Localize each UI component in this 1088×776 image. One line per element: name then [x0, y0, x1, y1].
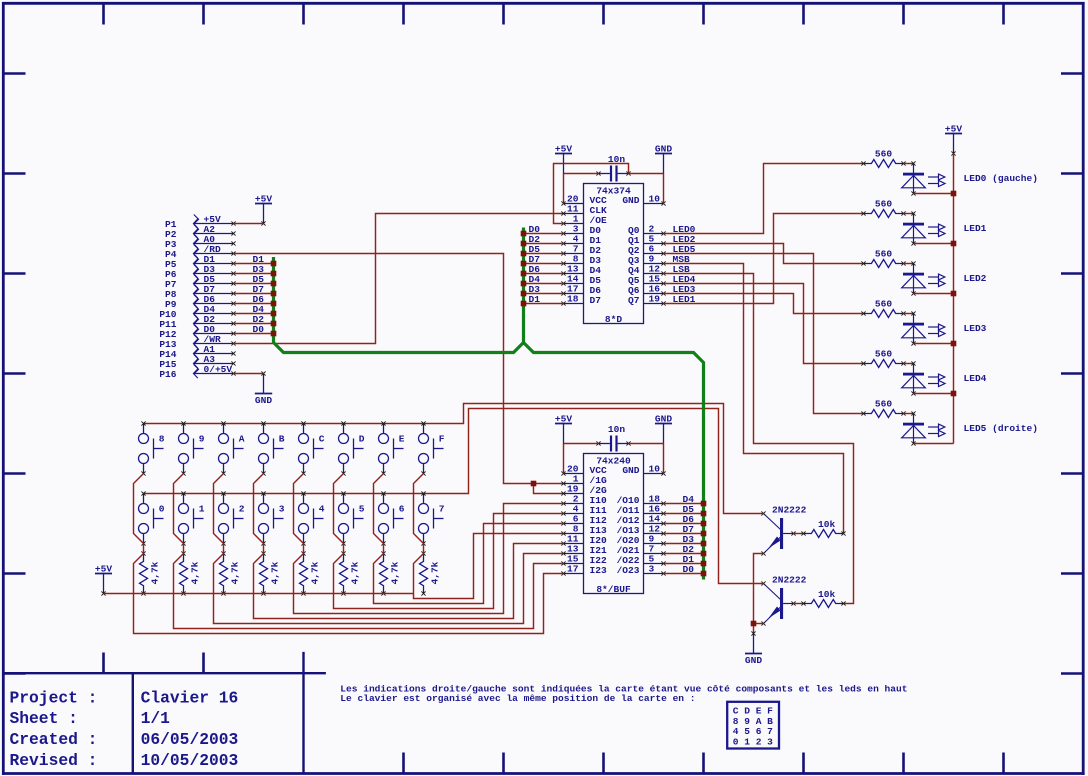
wire Q1 base: [794, 533, 804, 535]
switch S5 key 5: [339, 491, 365, 545]
junction dots bus U1 D0-D7: [521, 231, 527, 307]
wire /RD (P4 to 74x240 /1G,/2G): [234, 254, 564, 484]
svg-text:LED2: LED2: [964, 273, 987, 284]
svg-text:F: F: [439, 434, 445, 445]
U1 pin 4 D1: [561, 234, 601, 247]
svg-text:0/+5V: 0/+5V: [204, 364, 233, 375]
wire /2G branch: [534, 484, 564, 494]
wire D5 (U2 to bus): [664, 504, 704, 515]
wire R4 to LED3: [904, 313, 914, 315]
U1 pin 1 /OE: [561, 214, 607, 227]
GND symbol (connector P16): [255, 371, 273, 406]
wire P1 +5V: [234, 223, 264, 225]
U2 pin 11 I20: [561, 534, 607, 547]
wire D7 (bus to U1): [524, 254, 564, 265]
switch S7 key 7: [419, 491, 445, 545]
svg-text:1/1: 1/1: [141, 709, 171, 728]
wire D0 (U2 to bus): [664, 564, 704, 575]
connector pin P6: [165, 264, 236, 280]
switch S8 key 8: [139, 421, 165, 475]
switch S3 key 3: [259, 491, 285, 545]
note text: [340, 684, 907, 704]
wire P16 GND: [234, 373, 264, 375]
svg-text:+5V: +5V: [95, 564, 112, 575]
resistor R6 560: [861, 399, 905, 418]
connector pin P2: [165, 224, 236, 240]
connector pin P16: [159, 364, 235, 380]
resistor R4,7k column 2: [180, 551, 201, 595]
wire GND to C2 and U2 pin10: [629, 444, 664, 474]
U1 pin 13 D4: [561, 264, 601, 277]
junction dot emitters: [751, 621, 757, 627]
wire D6 (U2 to bus): [664, 514, 704, 525]
wire +5V LED rail: [953, 154, 955, 444]
capacitor C1 10n: [596, 154, 630, 182]
GND symbol (transistors): [745, 631, 762, 666]
svg-text:Clavier 16: Clavier 16: [141, 688, 239, 707]
svg-text:I23: I23: [590, 565, 607, 576]
wire D1 (U2 to bus): [664, 554, 704, 565]
wire +5V to C1 and U1 VCC: [564, 174, 599, 204]
U2 pin 12 /O13: [617, 524, 666, 537]
wire keypad row2 to Q2 collector: [144, 409, 764, 584]
svg-text:2N2222: 2N2222: [772, 505, 807, 516]
svg-text:560: 560: [875, 399, 892, 410]
resistor R8 10k: [801, 589, 845, 608]
wire D7 (U2 to bus): [664, 524, 704, 535]
wire keypad row1 to Q1 collector: [144, 404, 764, 514]
wire D4 (P10 to bus): [234, 304, 274, 315]
resistor R1 560: [861, 149, 905, 168]
title block text: [10, 688, 239, 769]
wire Q1 emitter to Q2 emitter: [754, 554, 764, 624]
svg-text:D0: D0: [683, 564, 695, 575]
wire MSB net (to Q1 10k): [664, 254, 844, 534]
resistor R4,7k column 8: [420, 551, 441, 595]
svg-text:GND: GND: [745, 655, 762, 666]
U1 pin 18 D7: [561, 294, 601, 307]
svg-text:4,7k: 4,7k: [349, 561, 360, 584]
svg-text:LED0 (gauche): LED0 (gauche): [964, 173, 1038, 184]
svg-text:10: 10: [649, 464, 661, 475]
switch S0 key 0: [139, 491, 165, 545]
svg-text:560: 560: [875, 149, 892, 160]
svg-text:17: 17: [567, 564, 579, 575]
wire keypad column 5 to U2 input: [294, 504, 564, 614]
wire Q2 base: [794, 603, 804, 605]
connector pin P14: [159, 344, 235, 360]
wire D2 (P11 to bus): [234, 314, 274, 325]
svg-text:Le clavier est organisé avec l: Le clavier est organisé avec la même pos…: [340, 693, 695, 704]
svg-text:560: 560: [875, 199, 892, 210]
wire keypad column 2 to U2 input: [174, 554, 564, 629]
connector pin P4: [165, 244, 236, 260]
svg-text:0 1 2 3: 0 1 2 3: [733, 737, 773, 748]
svg-text:4,7k: 4,7k: [429, 561, 440, 584]
wire D5 (P7 to bus): [234, 274, 274, 285]
svg-text:GND: GND: [655, 414, 672, 425]
title block: [2, 652, 326, 774]
+5V power symbol (keypad pullups): [95, 564, 112, 596]
U1 pin 17 D6: [561, 284, 601, 297]
U1 pin 14 D5: [561, 274, 601, 287]
wire D3 (U2 to bus): [664, 534, 704, 545]
connector pin P10: [159, 304, 235, 320]
wire D3 (P6 to bus): [234, 264, 274, 275]
svg-text:4: 4: [319, 504, 325, 515]
wire D6 (P9 to bus): [234, 294, 274, 305]
green data bus: [274, 228, 704, 580]
wire D2 (bus to U1): [524, 234, 564, 245]
junction dots LED +5V rail: [951, 191, 957, 397]
wire D0 (P12 to bus): [234, 324, 274, 335]
svg-text:D: D: [359, 434, 365, 445]
svg-text:2: 2: [239, 504, 245, 515]
svg-text:1: 1: [199, 504, 205, 515]
wire LED0 cathode to +5V rail: [914, 193, 954, 195]
U2 pin 19 /2G: [561, 484, 607, 497]
U1 pin 5 Q1: [628, 234, 666, 247]
connector pin P11: [159, 314, 235, 330]
connector pin P13: [159, 334, 235, 350]
svg-text:10/05/2003: 10/05/2003: [141, 751, 239, 770]
junction dots bus P5-P12: [271, 261, 277, 337]
U1 pin 12 Q4: [628, 264, 666, 277]
resistor R4,7k column 1: [140, 551, 161, 595]
svg-text:3: 3: [649, 564, 655, 575]
switch SA key A: [219, 421, 245, 475]
svg-text:560: 560: [875, 249, 892, 260]
switch S9 key 9: [179, 421, 205, 475]
svg-text:Project :: Project :: [10, 688, 98, 707]
U2 pin 7 /O21: [617, 544, 666, 557]
wire D3 (bus to U1): [524, 284, 564, 295]
svg-text:10k: 10k: [818, 589, 835, 600]
svg-text:2N2222: 2N2222: [772, 575, 807, 586]
switch SC key C: [299, 421, 325, 475]
wire LED5 net: [664, 244, 864, 414]
wire key 3 bottom to resistor: [263, 544, 265, 554]
wire D7 (P8 to bus): [234, 284, 274, 295]
switch SD key D: [339, 421, 365, 475]
wire key 4 bottom to resistor: [303, 544, 305, 554]
resistor R4,7k column 7: [380, 551, 401, 595]
wire Q2 emitter to GND: [754, 624, 764, 634]
switch S4 key 4: [299, 491, 325, 545]
wire key 6 bottom to resistor: [383, 544, 385, 554]
svg-text:4,7k: 4,7k: [189, 561, 200, 584]
svg-text:18: 18: [567, 294, 579, 305]
wire key D bottom to column chain: [334, 474, 344, 544]
U1 pin 11 CLK: [561, 204, 607, 217]
U2 pin 3 /O23: [617, 564, 666, 577]
svg-text:7: 7: [439, 504, 445, 515]
svg-text:06/05/2003: 06/05/2003: [141, 730, 239, 749]
LED0 diode: [902, 161, 945, 195]
U2 pin 4 I11: [561, 504, 607, 517]
svg-text:GND: GND: [255, 395, 272, 406]
IC U1 74x374: [584, 184, 644, 326]
U1 pin 6 Q2: [628, 244, 666, 257]
junction dot /1G //2G: [531, 481, 537, 487]
resistor R3 560: [861, 249, 905, 268]
wire D4 (bus to U1): [524, 274, 564, 285]
wire /WR (P13 to 74x374 CLK): [234, 214, 564, 344]
wire keypad column 6 to U2 input: [334, 514, 564, 609]
connector pin P7: [165, 274, 236, 290]
svg-text:8: 8: [159, 434, 165, 445]
U1 pin 7 D2: [561, 244, 601, 257]
keypad layout table: [727, 702, 779, 749]
wire D0 (bus to U1): [524, 224, 564, 235]
svg-text:560: 560: [875, 349, 892, 360]
U2 pin 9 /O20: [617, 534, 666, 547]
LED4 diode: [902, 361, 945, 395]
connector pin P1: [165, 214, 236, 230]
junction dots bus U2 outputs: [701, 501, 707, 577]
wire key C bottom to column chain: [294, 474, 304, 544]
U1 pin 20 VCC: [561, 194, 607, 207]
svg-text:8*D: 8*D: [605, 314, 622, 325]
capacitor C2 10n: [596, 424, 630, 452]
switch SB key B: [259, 421, 285, 475]
svg-text:LED3: LED3: [964, 323, 987, 334]
U2 pin 10 GND: [622, 464, 665, 477]
wire R6 to LED5: [904, 413, 914, 415]
svg-text:9: 9: [199, 434, 205, 445]
svg-text:/O23: /O23: [617, 565, 640, 576]
wire LED2 cathode to +5V rail: [914, 293, 954, 295]
U2 pin 8 I13: [561, 524, 607, 537]
U2 pin 20 VCC: [561, 464, 607, 477]
wire R1 to LED0: [904, 163, 914, 165]
wire R3 to LED2: [904, 263, 914, 265]
U2 pin 14 /O12: [617, 514, 666, 527]
wire key 2 bottom to resistor: [223, 544, 225, 554]
wire LED4 net: [664, 274, 864, 364]
svg-text:10: 10: [649, 194, 661, 205]
U1 pin 3 D0: [561, 224, 601, 237]
svg-text:GND: GND: [622, 465, 639, 476]
wire GND to C1 and U1 pin10: [629, 174, 664, 204]
U1 pin 16 Q6: [628, 284, 666, 297]
svg-text:P16: P16: [159, 369, 176, 380]
LED2 diode: [902, 261, 945, 295]
wire key 0 bottom to resistor: [143, 544, 145, 554]
resistor R4,7k column 3: [220, 551, 241, 595]
U1 pin 19 Q7: [628, 294, 666, 307]
svg-text:LED4: LED4: [964, 373, 987, 384]
U2 pin 2 I10: [561, 494, 607, 507]
switch S1 key 1: [179, 491, 205, 545]
svg-text:+5V: +5V: [555, 414, 572, 425]
svg-text:LED5 (droite): LED5 (droite): [964, 423, 1038, 434]
U2 pin 17 I23: [561, 564, 607, 577]
wire key 1 bottom to resistor: [183, 544, 185, 554]
wire keypad column 8 to U2 input: [414, 534, 564, 599]
svg-text:D0: D0: [253, 324, 265, 335]
wire LED0 net: [664, 164, 864, 236]
svg-text:560: 560: [875, 299, 892, 310]
wire keypad column 3 to U2 input: [214, 554, 564, 624]
svg-text:10k: 10k: [818, 519, 835, 530]
+5V power symbol (connector P1): [255, 194, 272, 226]
wire key B bottom to column chain: [254, 474, 264, 544]
wire R2 to LED1: [904, 213, 914, 215]
svg-text:10n: 10n: [608, 424, 625, 435]
svg-text:4,7k: 4,7k: [149, 561, 160, 584]
U2 pin 6 I12: [561, 514, 607, 527]
U1 pin 15 Q5: [628, 274, 666, 287]
connector pin P8: [165, 284, 236, 300]
svg-text:E: E: [399, 434, 405, 445]
wire keypad column 4 to U2 input: [254, 544, 564, 619]
wire D5 (bus to U1): [524, 244, 564, 255]
svg-text:3: 3: [279, 504, 285, 515]
svg-text:B: B: [279, 434, 285, 445]
wire key 9 bottom to column chain: [174, 474, 184, 544]
resistor R4,7k column 5: [300, 551, 321, 595]
GND symbol (U1, bar under label): [655, 144, 672, 174]
svg-text:D1: D1: [529, 294, 541, 305]
U1 pin 8 D3: [561, 254, 601, 267]
+5V power symbol (LED rail): [945, 124, 962, 156]
wire D6 (bus to U1): [524, 264, 564, 275]
svg-text:+5V: +5V: [555, 144, 572, 155]
wire D1 (bus to U1): [524, 294, 564, 305]
switch SE key E: [379, 421, 405, 475]
resistor R4,7k column 4: [260, 551, 281, 595]
svg-text:4,7k: 4,7k: [389, 561, 400, 584]
transistor Q2 2N2222: [761, 575, 806, 626]
connector pin P9: [165, 294, 236, 310]
wire D4 (U2 to bus): [664, 494, 704, 505]
wire +5V to C2 and U2 VCC: [564, 444, 599, 474]
svg-text:Revised :: Revised :: [10, 751, 98, 770]
connector pin P5: [165, 254, 236, 270]
resistor R7 10k: [801, 519, 845, 538]
wire keypad column 1 to U2 input: [134, 554, 564, 634]
svg-text:+5V: +5V: [255, 194, 272, 205]
resistor R5 560: [861, 349, 905, 368]
connector pin P3: [165, 234, 236, 250]
switch SF key F: [419, 421, 445, 475]
wire key F bottom to column chain: [414, 474, 424, 544]
LED1 diode: [902, 211, 945, 245]
wire LED3 net: [664, 284, 864, 314]
svg-text:+5V: +5V: [945, 124, 962, 135]
svg-text:4,7k: 4,7k: [229, 561, 240, 584]
svg-text:C: C: [319, 434, 325, 445]
resistor R4 560: [861, 299, 905, 318]
wire LED1 cathode to +5V rail: [914, 243, 954, 245]
LED5 diode: [902, 411, 945, 445]
wire LED3 cathode to +5V rail: [914, 343, 954, 345]
svg-text:GND: GND: [655, 144, 672, 155]
svg-text:Q7: Q7: [628, 295, 640, 306]
svg-text:LED1: LED1: [673, 294, 696, 305]
svg-text:0: 0: [159, 504, 165, 515]
wire key 7 bottom to resistor: [423, 544, 425, 554]
wire D1 (P5 to bus): [234, 254, 274, 265]
svg-text:8*/BUF: 8*/BUF: [596, 584, 631, 595]
wire R5 to LED4: [904, 363, 914, 365]
U2 pin 16 /O11: [617, 504, 666, 517]
wire key A bottom to column chain: [214, 474, 224, 544]
resistor R4,7k column 6: [340, 551, 361, 595]
wire key 5 bottom to resistor: [343, 544, 345, 554]
U2 pin 1 /1G: [561, 474, 607, 487]
U1 pin 2 Q0: [628, 224, 666, 237]
resistor R2 560: [861, 199, 905, 218]
wire D2 (U2 to bus): [664, 544, 704, 555]
connector pin P12: [159, 324, 235, 340]
wire keypad column 7 to U2 input: [374, 524, 564, 604]
U2 pin 15 I22: [561, 554, 607, 567]
connector pin P15: [159, 354, 235, 370]
svg-text:4,7k: 4,7k: [269, 561, 280, 584]
wire key 8 bottom to column chain: [134, 474, 144, 544]
svg-text:Created :: Created :: [10, 730, 98, 749]
IC U2 74x240: [584, 454, 644, 596]
svg-text:GND: GND: [622, 195, 639, 206]
svg-text:A: A: [239, 434, 245, 445]
svg-text:LED1: LED1: [964, 223, 987, 234]
switch S2 key 2: [219, 491, 245, 545]
wire LED4 cathode to +5V rail: [914, 393, 954, 395]
U2 pin 18 /O10: [617, 494, 666, 507]
svg-text:5: 5: [359, 504, 365, 515]
transistor Q1 2N2222: [761, 505, 806, 556]
+5V power symbol (U1): [555, 144, 572, 174]
wire LED2 net: [664, 234, 864, 264]
wire LED5 cathode to +5V rail: [914, 443, 954, 445]
wire key E bottom to column chain: [374, 474, 384, 544]
svg-text:Sheet :: Sheet :: [10, 709, 78, 728]
GND symbol (U2, bar under label): [655, 414, 672, 444]
wire /OE to GND net: [554, 164, 629, 224]
svg-text:D7: D7: [590, 295, 602, 306]
wire LED1 net: [664, 214, 864, 306]
+5V power symbol (U2): [555, 414, 572, 444]
wire +5V pullup rail: [104, 593, 414, 595]
svg-text:4,7k: 4,7k: [309, 561, 320, 584]
LED3 diode: [902, 311, 945, 345]
U1 pin 9 Q3: [628, 254, 666, 267]
svg-text:19: 19: [649, 294, 661, 305]
wire LSB net (to Q2 10k): [664, 264, 854, 604]
switch S6 key 6: [379, 491, 405, 545]
U2 pin 5 /O22: [617, 554, 666, 567]
U2 pin 13 I21: [561, 544, 607, 557]
svg-text:6: 6: [399, 504, 405, 515]
U1 pin 10 GND: [622, 194, 665, 207]
